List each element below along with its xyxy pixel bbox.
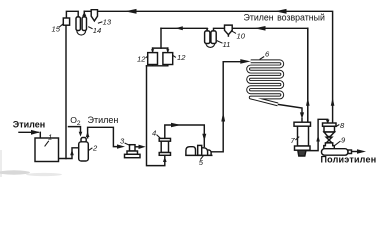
svg-text:Этилен: Этилен <box>88 115 119 125</box>
svg-text:12: 12 <box>137 55 146 64</box>
svg-text:Полиэтилен: Полиэтилен <box>321 154 377 164</box>
svg-text:Этилен: Этилен <box>13 119 45 129</box>
svg-text:13: 13 <box>103 17 112 26</box>
svg-text:4: 4 <box>152 129 156 138</box>
svg-text:14: 14 <box>93 26 101 35</box>
svg-text:1: 1 <box>48 133 52 142</box>
svg-text:2: 2 <box>92 144 98 153</box>
svg-text:10: 10 <box>237 32 246 41</box>
svg-text:Этилен возвратный: Этилен возвратный <box>244 12 325 22</box>
svg-text:11: 11 <box>223 40 231 49</box>
svg-text:12: 12 <box>177 53 186 62</box>
svg-text:15: 15 <box>52 25 61 34</box>
